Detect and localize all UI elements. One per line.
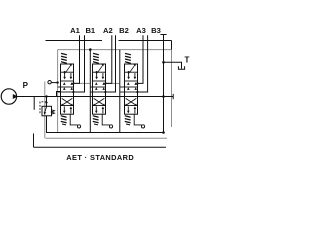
relief body [42, 106, 52, 116]
node tank line corner [162, 131, 165, 134]
section feed channel gray [57, 50, 59, 133]
port line B2 [106, 35, 116, 92]
bypass line section2 [119, 50, 121, 133]
node gauge junction [56, 81, 58, 83]
subplate left edge [33, 134, 35, 148]
svg-text:B2: B2 [119, 26, 129, 35]
pump outlet arrow [13, 94, 18, 99]
port line A1 [74, 35, 80, 83]
svg-text:P: P [23, 81, 29, 90]
V2 neutral left links [90, 86, 92, 88]
tank symbol [178, 66, 184, 69]
relief inlet wire [46, 97, 48, 107]
carryover plug cap [172, 94, 174, 99]
relief inlet arrowhead [45, 102, 48, 105]
node P junction to relief [45, 95, 47, 97]
svg-text:A2: A2 [103, 26, 113, 35]
carryover plug wire [164, 96, 174, 98]
T branch wire [164, 62, 182, 69]
directional valve V3 [125, 53, 145, 128]
tank top line right segment [119, 40, 172, 42]
tank line right drop stub [171, 41, 173, 50]
gray A-gallery line section1 [74, 82, 91, 84]
enclosure left edge [44, 82, 46, 139]
port line A2 [106, 35, 112, 83]
svg-text:B3: B3 [151, 26, 161, 35]
node carryover branch [162, 95, 165, 98]
svg-text:AET · STANDARD: AET · STANDARD [66, 153, 134, 162]
gauge port wire [51, 82, 57, 84]
gauge port circle [48, 81, 51, 84]
tank gallery cap bar [160, 34, 166, 36]
node bypass1 top [89, 48, 92, 51]
P port tick [33, 97, 35, 110]
svg-text:T: T [185, 56, 190, 65]
relief outlet wire [47, 116, 164, 133]
directional valve V2 [93, 53, 113, 128]
svg-text:A3: A3 [136, 26, 146, 35]
port line A3 [138, 35, 144, 83]
svg-text:B1: B1 [85, 26, 95, 35]
P supply line [16, 96, 163, 98]
directional valve V1 [61, 53, 81, 128]
bypass line section1 [89, 50, 91, 133]
pump circle P1 [1, 89, 16, 104]
relief pilot dashed line [40, 102, 47, 113]
P feed jog into section1 [57, 92, 61, 97]
enclosure top edge [58, 49, 172, 51]
node T branch [162, 61, 165, 64]
svg-text:A1: A1 [70, 26, 80, 35]
enclosure right edge [171, 50, 173, 127]
tank top line left segment [46, 40, 103, 42]
gray A-gallery line section2 [106, 82, 120, 84]
relief arrow [45, 107, 47, 112]
tank gallery line [163, 35, 165, 133]
enclosure bottom edge [46, 137, 168, 139]
subplate bottom edge [34, 146, 167, 148]
port line B1 [74, 35, 85, 92]
V1 neutral left links [58, 86, 61, 88]
V3 neutral left links [120, 86, 125, 88]
relief spring [52, 110, 55, 114]
port line B3 [138, 35, 148, 92]
